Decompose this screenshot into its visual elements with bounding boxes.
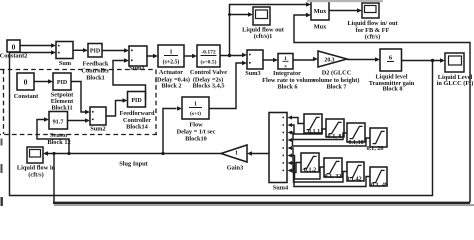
- wire branch to scope S1: [230, 14, 249, 16]
- svg-text:Control Valve: Control Valve: [190, 69, 227, 76]
- wire thick slug bottom run: [53, 202, 470, 204]
- svg-text:Sensor: Sensor: [50, 132, 68, 139]
- wire Sum4 output to Gain3: [252, 153, 270, 155]
- junction dot slug/sensor tap: [67, 152, 70, 155]
- transfer-fn G3 (Flow Block10): [177, 97, 216, 143]
- arrowhead into Integrator: [273, 58, 278, 62]
- arrowhead into Sum3 input1: [242, 53, 247, 57]
- svg-text:(s+t): (s+t): [190, 110, 201, 117]
- svg-text:0.1, 32: 0.1, 32: [324, 173, 341, 180]
- arrowhead into Control Valve: [192, 54, 197, 58]
- svg-text:Constant2: Constant2: [0, 53, 27, 60]
- svg-text:Block 6: Block 6: [277, 84, 297, 91]
- wire junction A riser to Mux input 1: [230, 5, 307, 56]
- scope S4 (Liquid Level in GLCC): [437, 53, 474, 87]
- arrowhead into Sum3 input2: [242, 61, 247, 65]
- wire gain 20.3 to transmitter: [347, 59, 376, 61]
- arrowhead into Sum input2: [51, 50, 56, 54]
- arrowheads into Sum4 ports: [288, 116, 293, 120]
- svg-text:Block 7: Block 7: [326, 84, 346, 91]
- arrowhead into Sum2 input2: [85, 118, 90, 122]
- gain K2 (Liquid level Transmitter gain Block 8): [369, 49, 415, 93]
- summer Sum4: [269, 113, 289, 192]
- controller U4 (PID Feedforward Controller Block14): [120, 92, 155, 131]
- junction A dot: [228, 54, 231, 57]
- gain K1 (D2 GLCC Block 7, triangle 20.3): [313, 51, 360, 91]
- arrowhead into gain 20.3: [313, 57, 318, 61]
- summer Sum: [56, 42, 73, 68]
- svg-text:s: s: [284, 64, 286, 70]
- transfer-fn G1 (Actuator Block 2): [155, 45, 190, 90]
- ramp R7 (0.1,42): [346, 162, 364, 183]
- svg-text:Slug Input: Slug Input: [119, 161, 148, 168]
- ramp R8 (-0.1, 49): [369, 167, 388, 189]
- svg-text:(cft/s): (cft/s): [28, 172, 43, 179]
- junction dot slug/down riser: [52, 152, 55, 155]
- wire Flow block to Sum3 input 2: [209, 63, 242, 109]
- wire Setpoint PID to Sum2: [71, 82, 86, 113]
- svg-text:Flow: Flow: [189, 122, 203, 129]
- scope S2 (Liquid flow in/out for FB & FF): [347, 3, 398, 41]
- svg-text:Controller: Controller: [81, 68, 109, 75]
- arrowhead into Gain3: [247, 151, 252, 155]
- svg-text:Sum3: Sum3: [245, 70, 260, 77]
- svg-text:Mux: Mux: [314, 24, 327, 31]
- svg-text:in GLCC (Ft): in GLCC (Ft): [437, 80, 474, 87]
- svg-text:Integrator: Integrator: [273, 70, 301, 77]
- svg-text:Block11: Block11: [51, 105, 72, 112]
- svg-text:0: 0: [24, 78, 28, 87]
- ramp R6 (0.1, 32): [324, 158, 342, 180]
- arrowhead into scope S3: [43, 151, 48, 155]
- ramp R2 (-0.1, 8): [326, 119, 344, 140]
- page-edge artifact marks: [1, 164, 3, 173]
- arrowhead into Sum input1: [51, 43, 56, 47]
- svg-text:Mux: Mux: [314, 8, 328, 15]
- svg-text:Block10: Block10: [185, 136, 207, 143]
- svg-text:Gain3: Gain3: [227, 165, 243, 172]
- junction dot slug/flow riser: [161, 152, 164, 155]
- wire Integrator to gain 20.3: [293, 59, 314, 61]
- arrowhead into Setpoint PID: [48, 79, 53, 83]
- svg-text:Sum1: Sum1: [129, 65, 144, 72]
- summer Sum3: [245, 50, 263, 77]
- svg-text:-0.172: -0.172: [201, 50, 216, 56]
- arrowhead into transmitter: [375, 57, 380, 61]
- arrowhead into Feedforward PID: [123, 98, 128, 102]
- svg-text:D2 (GLCC: D2 (GLCC: [322, 70, 352, 77]
- svg-text:Block14: Block14: [126, 123, 149, 130]
- ramp R4 (0.1, 26): [366, 128, 387, 152]
- wire ramp R1 to Sum4: [292, 118, 304, 124]
- ramp R5 (-0.1,2): [301, 153, 319, 174]
- svg-text:-0.1, 49: -0.1, 49: [369, 182, 388, 189]
- svg-text:Block 2: Block 2: [161, 83, 181, 90]
- arrowhead into Flow block: [177, 106, 182, 110]
- arrowhead into Mux input2: [306, 13, 311, 17]
- svg-text:Delay = 1/t sec: Delay = 1/t sec: [177, 129, 216, 136]
- svg-text:Sum: Sum: [59, 60, 72, 67]
- svg-text:91.7: 91.7: [53, 119, 64, 126]
- ramp R1 (0.1,1): [304, 114, 322, 135]
- svg-text:PID: PID: [90, 49, 101, 55]
- svg-text:PID: PID: [131, 98, 142, 104]
- dashed boundary of controller subsystem: [0, 70, 157, 135]
- integrator U2 (Block 6): [262, 54, 316, 91]
- transfer-fn G2 (Control Valve Blocks 3,4,5): [190, 45, 227, 90]
- svg-text:1: 1: [235, 151, 238, 157]
- wire PID1 to Sum1: [102, 50, 125, 52]
- wire level feedback: node B down, along bottom, up left side into Sum: [10, 53, 433, 196]
- arrowhead into Sum2 input1: [85, 110, 90, 114]
- wire ramp R7 to Sum4: [292, 163, 347, 182]
- gain K3 (Sensor Block 12, 91.7): [47, 112, 70, 147]
- svg-text:Constant: Constant: [14, 93, 39, 100]
- arrowhead into Mux input1: [306, 2, 311, 6]
- wire Sum to PID1: [73, 49, 84, 51]
- scope S3 (Liquid flow in): [17, 147, 56, 179]
- arrowhead into 91.7: [44, 117, 49, 121]
- constant C1 (block Constant): [14, 73, 39, 100]
- wire slug line to Mux input 2 around page: [53, 154, 55, 203]
- wire slug riser to Flow block: [163, 109, 177, 154]
- svg-text:Block1: Block1: [86, 75, 105, 82]
- svg-text:(cft/s)1: (cft/s)1: [254, 33, 273, 40]
- svg-text:(s+0.5): (s+0.5): [200, 59, 216, 66]
- gain K4 (Gain3 triangle, flipped): [221, 145, 247, 172]
- wire 91.7 to Sum2: [67, 120, 86, 122]
- svg-text:Feedforward: Feedforward: [120, 110, 155, 117]
- wire Sum3 to Integrator: [263, 59, 274, 61]
- wire Constant2 to Sum: [20, 45, 51, 47]
- controller U3 (PID Setpoint Element Block11): [51, 73, 74, 112]
- wire ramp R5 to Sum4: [292, 148, 301, 173]
- svg-text:(s+2.5): (s+2.5): [163, 59, 180, 66]
- svg-text:0: 0: [12, 43, 16, 52]
- arrowhead into Actuator: [153, 54, 158, 58]
- controller U1 (PID Feedback Controller Block1): [81, 44, 109, 82]
- wire sensor tap from slug line to 91.7: [37, 120, 69, 154]
- svg-text:-0.1,2: -0.1,2: [302, 167, 316, 174]
- arrowhead into scope S2: [357, 8, 362, 12]
- ramp R3 (-0.1,18): [346, 123, 365, 146]
- junction dot at scope1 branch: [228, 13, 231, 16]
- svg-text:Actuator: Actuator: [159, 69, 183, 76]
- svg-text:Sum4: Sum4: [273, 185, 289, 192]
- wire Mux to scope S2: [329, 10, 358, 12]
- wire Gain3 output to scope S3 (slug line): [48, 153, 222, 155]
- wire ramp R6 to Sum4: [292, 156, 324, 180]
- wire Constant to Setpoint PID: [34, 81, 49, 83]
- svg-text:20.3: 20.3: [324, 57, 334, 63]
- svg-text:1: 1: [194, 102, 197, 108]
- wire ramp R3 to Sum4: [292, 133, 347, 140]
- summer Sum2: [90, 107, 106, 133]
- wire ramp R8 to Sum4: [292, 171, 370, 187]
- constant C2 (block Constant2): [0, 40, 27, 60]
- wire Sum2 to Feedforward PID: [106, 101, 123, 117]
- svg-text:Sum2: Sum2: [90, 126, 105, 133]
- svg-text:Liquid flow in: Liquid flow in: [17, 165, 56, 172]
- arrowhead into PID1: [83, 48, 88, 52]
- wire transmitter to scope S4 with junction B: [402, 60, 441, 62]
- svg-text:Block 12: Block 12: [47, 139, 70, 146]
- junction B dot (level node): [431, 59, 434, 62]
- wire ramp R2 to Sum4: [292, 125, 326, 134]
- wire Sum1 to Actuator: [147, 55, 154, 57]
- arrowhead into scope S1: [248, 12, 253, 16]
- svg-text:PID: PID: [57, 80, 68, 86]
- arrowhead into Sum1 input1: [124, 48, 129, 52]
- mux M1: [311, 1, 329, 31]
- wire Actuator to Control Valve: [184, 55, 193, 57]
- svg-text:0.1,42: 0.1,42: [346, 176, 361, 183]
- scope S1 (Liquid flow out): [242, 7, 285, 40]
- wire feedforward PID to Sum1: [113, 61, 146, 100]
- summer Sum1: [129, 46, 147, 72]
- svg-text:1: 1: [170, 50, 173, 56]
- svg-text:0.1, 26: 0.1, 26: [366, 145, 383, 152]
- svg-text:Blocks 3,4,5: Blocks 3,4,5: [192, 83, 224, 90]
- wire ramp R4 to Sum4: [292, 138, 370, 146]
- svg-text:(cft/s): (cft/s): [365, 34, 380, 41]
- arrowhead into scope S4: [440, 58, 445, 62]
- svg-text:Feedback: Feedback: [83, 61, 109, 68]
- svg-text:-0.1,18: -0.1,18: [346, 139, 364, 146]
- svg-text:Block 8: Block 8: [382, 86, 402, 93]
- wire Control Valve to Sum3 with junction A: [220, 55, 242, 57]
- arrowhead into Sum1 input2: [124, 58, 129, 62]
